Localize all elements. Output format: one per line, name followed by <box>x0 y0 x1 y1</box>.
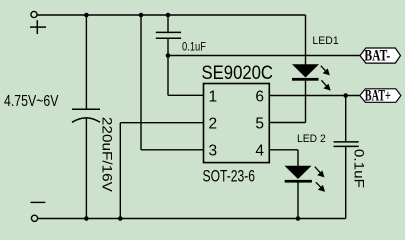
svg-text:BAT+: BAT+ <box>365 88 391 105</box>
minus mark <box>31 201 46 203</box>
svg-text:SOT-23-6: SOT-23-6 <box>203 168 256 186</box>
wire pin4 vertical to LED2 anode <box>297 150 299 166</box>
svg-text:2: 2 <box>209 116 218 133</box>
svg-text:4.75V~6V: 4.75V~6V <box>4 93 59 110</box>
svg-text:BAT-: BAT- <box>364 47 390 64</box>
node junction bottom rail / C1 <box>84 216 89 221</box>
wire bottom rail <box>38 218 346 220</box>
wire pin1 horizontal to U1 <box>168 94 204 96</box>
node junction BAT+ / C3 <box>343 93 348 98</box>
terminal (-) input circle <box>31 215 37 221</box>
wire C1 bottom lead <box>85 118 87 218</box>
node junction top rail / pin3 branch <box>139 13 144 18</box>
plus mark <box>30 20 46 34</box>
op-amp U1 SE9020C body <box>204 84 270 163</box>
svg-text:SE9020C: SE9020C <box>202 63 274 84</box>
svg-text:220uF/16V: 220uF/16V <box>100 117 116 193</box>
wire C3 top lead <box>345 96 347 142</box>
capacitor C3 0.1uF <box>334 142 359 147</box>
svg-text:LED1: LED1 <box>312 35 338 47</box>
node junction bottom rail / LED2 <box>296 216 301 221</box>
svg-text:5: 5 <box>255 116 264 133</box>
LED2 cathode bar <box>285 180 312 183</box>
LED2 emission arrow a <box>315 167 324 177</box>
node junction bottom rail / pin2 <box>118 216 123 221</box>
svg-text:1: 1 <box>209 88 218 105</box>
svg-text:4: 4 <box>255 143 264 160</box>
wire BAT- line <box>168 55 360 57</box>
node junction BAT- line <box>166 53 171 58</box>
wire C1 top lead <box>85 15 87 109</box>
wire pin2 vertical to bottom rail <box>119 123 121 219</box>
terminal (+) input circle <box>31 11 37 17</box>
wire C3 bottom lead <box>345 147 347 219</box>
LED2 diode triangle <box>285 166 312 179</box>
svg-text:3: 3 <box>209 143 218 160</box>
wire pin6 to BAT+ <box>269 95 360 97</box>
LED2 emission arrow b <box>316 182 324 191</box>
wire top rail <box>37 14 305 16</box>
capacitor C2 0.1uF <box>156 32 181 38</box>
wire pin2 horizontal <box>120 122 203 124</box>
wire LED1 anode from top rail <box>305 15 307 65</box>
wire pin3 vertical branch <box>140 15 142 150</box>
wire pin5 horizontal <box>269 122 305 124</box>
svg-text:0.1uF: 0.1uF <box>352 149 368 188</box>
wire pin5 vertical to LED1 cathode <box>305 79 307 123</box>
LED1 diode triangle <box>292 64 319 77</box>
capacitor C1 220uF/16V electrolytic <box>72 109 100 122</box>
svg-text:0.1uF: 0.1uF <box>182 39 206 53</box>
wire C2 top lead <box>167 15 169 32</box>
node junction top rail / C1 electrolytic <box>84 13 89 18</box>
port BAT- <box>360 47 401 64</box>
wire LED2 cathode to bottom rail <box>297 183 299 219</box>
svg-text:6: 6 <box>255 88 264 105</box>
LED1 cathode bar <box>292 78 319 81</box>
wire pin4 horizontal <box>269 149 298 151</box>
LED1 emission arrow b <box>321 80 329 89</box>
svg-text:LED 2: LED 2 <box>297 133 326 145</box>
wire C2 bottom lead down to pin1 <box>167 39 169 96</box>
wire pin3 horizontal to U1 <box>141 149 204 151</box>
port BAT+ <box>360 88 401 105</box>
LED1 emission arrow a <box>321 66 329 75</box>
node junction top rail / C2 branch <box>166 13 171 18</box>
